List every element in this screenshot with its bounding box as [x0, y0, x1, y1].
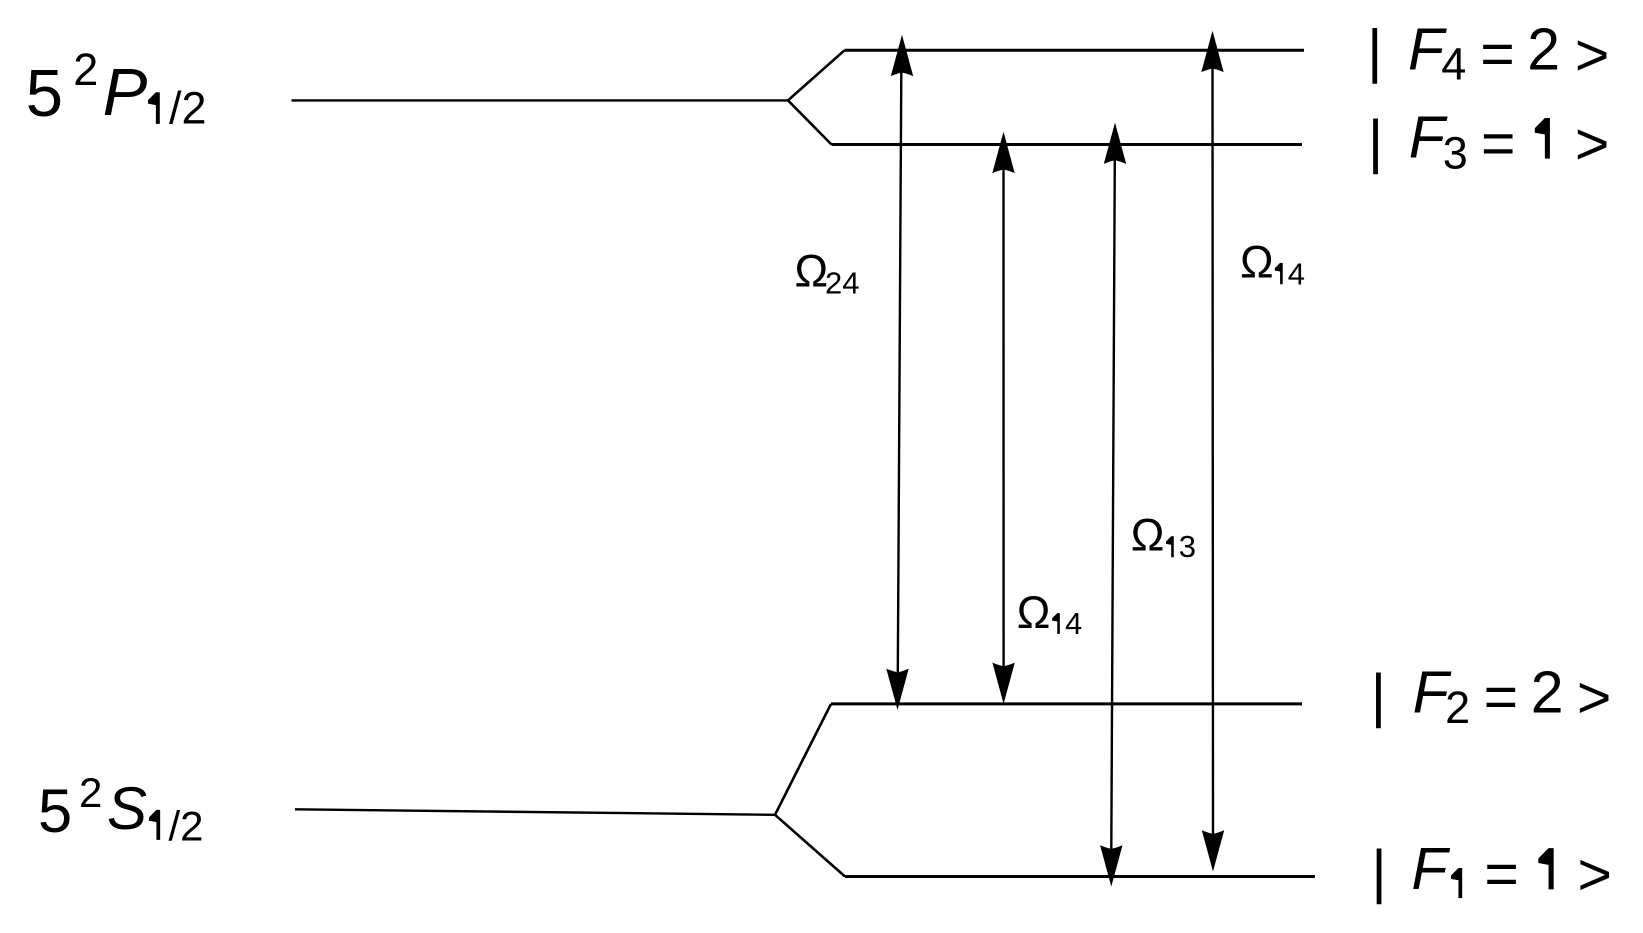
- svg-text:>: >: [1578, 841, 1612, 907]
- svg-text:|: |: [1368, 108, 1383, 174]
- svg-text:4: 4: [1441, 39, 1466, 90]
- svg-text:3: 3: [1179, 529, 1196, 564]
- svg-text:>: >: [1577, 665, 1611, 731]
- svg-text:>: >: [1575, 22, 1609, 88]
- svg-text:2: 2: [1527, 17, 1560, 83]
- svg-text:P: P: [103, 55, 148, 130]
- svg-text:Ω: Ω: [1017, 587, 1051, 638]
- svg-text:S: S: [107, 775, 147, 842]
- svg-text:=: =: [1484, 664, 1518, 730]
- svg-text:2: 2: [1531, 660, 1564, 726]
- svg-text:2: 2: [79, 769, 102, 816]
- svg-text:Ω: Ω: [795, 246, 829, 297]
- svg-text:2: 2: [73, 44, 98, 95]
- svg-text:5: 5: [38, 777, 72, 846]
- svg-text:/2: /2: [169, 82, 207, 133]
- svg-text:4: 4: [1288, 257, 1305, 292]
- svg-text:Ω: Ω: [1240, 237, 1274, 288]
- svg-text:=: =: [1480, 21, 1514, 87]
- svg-text:3: 3: [1443, 128, 1468, 179]
- svg-text:/2: /2: [169, 803, 204, 850]
- svg-text:5: 5: [26, 56, 63, 131]
- svg-text:=: =: [1481, 111, 1515, 177]
- svg-text:|: |: [1371, 663, 1386, 729]
- svg-text:4: 4: [1065, 606, 1082, 641]
- svg-text:2: 2: [1445, 682, 1470, 733]
- svg-text:24: 24: [825, 266, 859, 301]
- svg-text:>: >: [1575, 111, 1609, 177]
- svg-text:F: F: [1411, 836, 1450, 902]
- svg-text:=: =: [1484, 841, 1518, 907]
- svg-text:|: |: [1371, 839, 1386, 905]
- svg-text:Ω: Ω: [1131, 510, 1165, 561]
- svg-text:|: |: [1367, 18, 1382, 84]
